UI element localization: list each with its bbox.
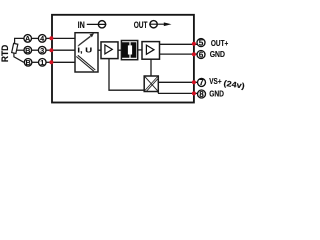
wire A2 to terminal 6 <box>160 53 198 55</box>
input wire row 4 <box>52 37 76 39</box>
input wire row 3 <box>52 49 76 51</box>
wire RTD element to B (terminal 3 row) <box>17 49 24 51</box>
svg-text:6: 6 <box>199 50 204 59</box>
terminal circle 7 <box>198 78 206 86</box>
junction dot terminal 8 <box>192 91 196 95</box>
svg-text:B: B <box>25 58 30 67</box>
svg-text:1: 1 <box>40 58 44 67</box>
OUT adjust arrowhead <box>164 22 172 26</box>
IN adjust slot line <box>87 23 107 25</box>
wire RTD element to B (terminal 1 row) <box>14 53 24 62</box>
wire terminal 1 to module <box>46 61 52 63</box>
sensor lead circle B (row 2) <box>24 46 32 54</box>
IN adjust pot circle <box>98 21 105 28</box>
terminal circle 4 <box>38 35 46 43</box>
power converter block <box>144 76 158 92</box>
OUT adjust slot line <box>149 23 165 25</box>
wire A2 to terminal 5 <box>160 43 198 45</box>
wire A2 to power converter <box>150 59 152 76</box>
wire power converter to terminal 7 <box>158 81 197 83</box>
amplifier A1 box <box>101 42 118 59</box>
input converter block U1 <box>75 33 98 72</box>
OUT adjust pot circle <box>150 21 157 28</box>
power converter diagonal band <box>145 76 159 91</box>
wire A1 to transformer <box>118 49 121 51</box>
svg-text:GND: GND <box>210 50 225 59</box>
sensor lead circle A <box>24 35 32 43</box>
terminal circle 3 <box>38 46 46 54</box>
RTD element resistor <box>12 43 18 53</box>
junction dot terminal 7 <box>192 80 196 84</box>
svg-text:OUT+: OUT+ <box>211 39 229 48</box>
wire terminal 3 to module <box>46 49 53 51</box>
terminal circle 8 <box>198 90 206 98</box>
adjustable arrow in U1 <box>78 35 92 46</box>
svg-text:RTD: RTD <box>0 44 10 62</box>
wire transformer to amplifier A2 <box>138 49 143 51</box>
input wire row 1 <box>52 61 76 63</box>
terminal circle 5 <box>197 39 205 47</box>
wire B to terminal 1 <box>32 61 38 63</box>
amplifier A2 triangle <box>146 45 154 54</box>
svg-text:3: 3 <box>40 46 44 55</box>
junction dot terminal 4 <box>49 36 53 40</box>
module enclosure box <box>52 15 194 103</box>
wire A to terminal 4 <box>32 37 38 39</box>
terminal circle 6 <box>197 51 205 59</box>
svg-text:GND: GND <box>209 90 224 99</box>
wire terminal 4 to module <box>46 37 53 39</box>
svg-text:VS+: VS+ <box>209 77 222 86</box>
svg-text:7: 7 <box>199 78 204 87</box>
sensor lead circle B (row 3) <box>24 59 32 67</box>
svg-text:8: 8 <box>199 90 204 99</box>
diagonal band in U1 <box>76 55 95 71</box>
amplifier A2 box <box>142 42 160 60</box>
svg-text:A: A <box>25 34 31 43</box>
svg-text:B: B <box>25 46 30 55</box>
wire B to terminal 3 <box>32 49 38 51</box>
svg-text:5: 5 <box>199 38 204 47</box>
terminal circle 1 <box>39 59 47 67</box>
wire A1 to power converter <box>109 59 144 91</box>
amplifier A1 triangle <box>105 45 112 54</box>
power converter diagonal <box>145 77 158 91</box>
svg-text:IN: IN <box>78 20 85 30</box>
transformer T1 box <box>121 41 137 60</box>
junction dot terminal 5 <box>192 42 196 46</box>
junction dot terminal 6 <box>192 52 196 56</box>
transformer T1 left core <box>122 42 129 58</box>
svg-text:OUT: OUT <box>134 20 148 30</box>
wire power converter to terminal 8 <box>158 91 198 93</box>
wire U1 to amplifier A1 <box>98 49 102 51</box>
junction dot terminal 3 <box>49 48 53 52</box>
svg-text:I, U: I, U <box>77 46 92 55</box>
transformer T1 right core <box>131 42 137 58</box>
junction dot terminal 1 <box>49 60 53 64</box>
wire A to RTD element <box>15 38 24 44</box>
